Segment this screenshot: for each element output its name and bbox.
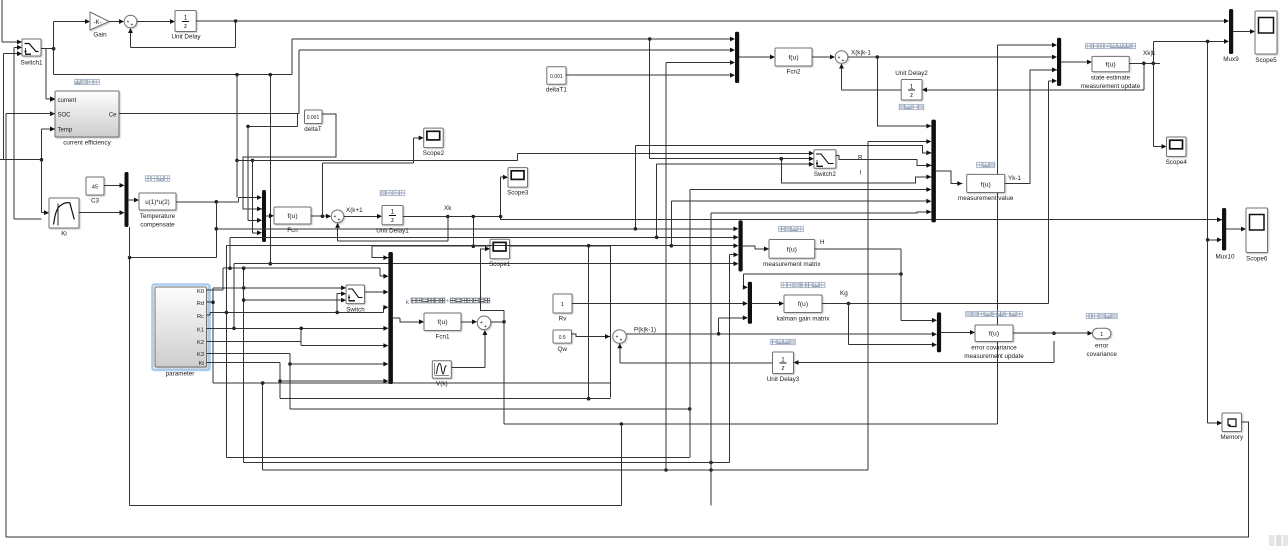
svg-text:Scope5: Scope5	[1255, 57, 1277, 64]
svg-text:V(k): V(k)	[436, 381, 448, 388]
svg-text:Unit Delay: Unit Delay	[171, 34, 201, 41]
svg-text:Scope2: Scope2	[423, 150, 445, 157]
svg-text:current efficiency: current efficiency	[63, 140, 111, 147]
svg-text:u(1)*u(2): u(1)*u(2)	[145, 199, 169, 206]
svg-text:Ce: Ce	[109, 112, 117, 118]
svg-text:Kg: Kg	[840, 290, 848, 297]
svg-text:Scope3: Scope3	[507, 190, 529, 197]
svg-text:Temp: Temp	[58, 128, 73, 134]
svg-text:error covariance: error covariance	[971, 345, 1017, 352]
svg-text:C3: C3	[91, 198, 100, 205]
svg-text:measurement update: measurement update	[1081, 83, 1141, 90]
svg-text:Kt: Kt	[199, 361, 205, 367]
svg-text:Temperature: Temperature	[140, 213, 176, 220]
svg-text:f(u): f(u)	[788, 54, 798, 61]
svg-text:+: +	[126, 19, 129, 25]
svg-text:H: H	[820, 239, 825, 246]
svg-text:45: 45	[92, 184, 98, 190]
svg-text:Rc: Rc	[197, 314, 204, 320]
svg-text:P(k|k-1): P(k|k-1)	[634, 327, 656, 334]
svg-text:I: I	[860, 170, 862, 177]
svg-text:Rv: Rv	[559, 316, 568, 323]
svg-text:Xk|k: Xk|k	[1143, 50, 1156, 57]
svg-text:K2: K2	[197, 340, 204, 346]
svg-text:+: +	[615, 334, 618, 340]
svg-text:K0: K0	[197, 289, 204, 295]
svg-text:deltaT1: deltaT1	[546, 87, 568, 94]
svg-text:Unit Delay2: Unit Delay2	[895, 70, 928, 77]
svg-text:f(u): f(u)	[989, 331, 999, 338]
svg-text:Yk-1: Yk-1	[1008, 175, 1021, 182]
svg-text:Xk: Xk	[444, 205, 452, 212]
svg-text:0.5: 0.5	[559, 335, 566, 341]
svg-text:Scope6: Scope6	[1246, 256, 1268, 263]
svg-text:X(k|k-1: X(k|k-1	[851, 50, 871, 57]
svg-text:z: z	[910, 92, 913, 99]
svg-text:measurement matrix: measurement matrix	[763, 261, 821, 268]
svg-text:Fcn2: Fcn2	[787, 69, 801, 76]
svg-text:K1: K1	[197, 327, 204, 333]
svg-text:state estimate: state estimate	[1091, 75, 1131, 82]
svg-text:Rd: Rd	[197, 301, 204, 307]
svg-text:f(u): f(u)	[1105, 62, 1115, 69]
svg-text:current: current	[58, 98, 77, 104]
svg-text:Scope4: Scope4	[1166, 159, 1188, 166]
svg-text:1: 1	[184, 15, 188, 22]
svg-text:+: +	[619, 338, 622, 344]
svg-text:Switch: Switch	[346, 307, 365, 314]
svg-text:kalman gain matrix: kalman gain matrix	[777, 316, 831, 323]
svg-text:Gain: Gain	[93, 32, 107, 39]
svg-text:+: +	[480, 321, 483, 327]
svg-text:f(u): f(u)	[787, 246, 797, 253]
svg-text:parameter: parameter	[166, 371, 195, 378]
svg-text:+: +	[841, 58, 844, 64]
svg-text:1: 1	[781, 356, 785, 363]
svg-text:deltaT: deltaT	[304, 126, 322, 133]
svg-text:+: +	[484, 324, 487, 330]
svg-text:compensate: compensate	[140, 222, 175, 229]
svg-text:1: 1	[910, 83, 914, 90]
svg-text:Fcn1: Fcn1	[436, 334, 450, 341]
svg-text:Mux9: Mux9	[1223, 56, 1239, 63]
svg-text:f(u): f(u)	[437, 319, 447, 326]
svg-text:1: 1	[561, 302, 564, 308]
svg-text:z: z	[781, 365, 784, 372]
svg-text:Mux10: Mux10	[1216, 254, 1235, 261]
svg-text:f(u): f(u)	[287, 213, 297, 220]
svg-text:R: R	[858, 155, 863, 162]
svg-text:+: +	[337, 218, 340, 224]
svg-text:f(u): f(u)	[798, 301, 808, 308]
svg-text:z: z	[184, 23, 187, 30]
svg-text:Switch2: Switch2	[814, 171, 837, 178]
svg-text:Ki: Ki	[61, 231, 67, 238]
svg-text:Memory: Memory	[1220, 434, 1244, 441]
svg-text:+: +	[130, 23, 133, 29]
svg-text:Unit Delay3: Unit Delay3	[767, 376, 800, 383]
svg-text:X(k+1: X(k+1	[346, 207, 363, 214]
svg-text:0.001: 0.001	[550, 74, 563, 80]
svg-text:1: 1	[391, 209, 395, 216]
svg-text:error: error	[1095, 343, 1108, 350]
svg-text:+: +	[837, 55, 840, 61]
svg-text:SOC: SOC	[58, 112, 72, 118]
svg-text:f(u): f(u)	[981, 181, 991, 188]
svg-text:1: 1	[1100, 332, 1103, 338]
svg-text:Qw: Qw	[557, 346, 567, 353]
svg-text:Scope1: Scope1	[489, 261, 511, 268]
svg-text:z: z	[391, 217, 394, 224]
svg-text:-K-: -K-	[94, 20, 102, 26]
svg-text:Fcn: Fcn	[287, 227, 298, 234]
svg-text:0.001: 0.001	[307, 115, 320, 121]
svg-text:measurement update: measurement update	[964, 353, 1024, 360]
svg-text:measurement value: measurement value	[958, 195, 1014, 202]
svg-text:covariance: covariance	[1086, 351, 1117, 358]
svg-text:Switch1: Switch1	[20, 60, 43, 67]
svg-text:K3: K3	[197, 352, 204, 358]
svg-text:+: +	[333, 214, 336, 220]
